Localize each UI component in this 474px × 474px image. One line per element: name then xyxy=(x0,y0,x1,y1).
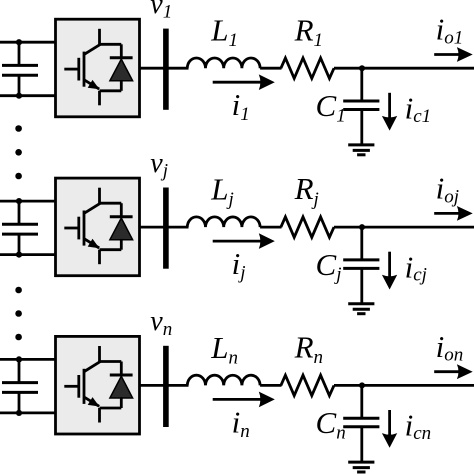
svg-text:i1: i1 xyxy=(232,87,250,125)
wire: module output to inductor (module 1) xyxy=(140,67,189,70)
wire: DC rail top (module n) xyxy=(0,358,57,361)
current arrow i1 xyxy=(213,74,275,90)
junction dot: DC cap bottom (module j) xyxy=(16,252,22,258)
junction node: filter cap tap (module n) xyxy=(359,382,365,388)
diode Dj (freewheeling) xyxy=(110,203,133,250)
svg-text:Rj: Rj xyxy=(294,171,319,210)
capacitor: DC-link cap (module 1) xyxy=(2,42,38,95)
current arrow icn xyxy=(382,410,397,448)
IGBT inverter module box Un xyxy=(56,336,140,434)
svg-text:in: in xyxy=(232,404,250,442)
resistor Rn xyxy=(281,375,334,395)
current arrow ioj xyxy=(434,206,473,221)
wire: DC rail top (module j) xyxy=(0,200,57,203)
junction node: filter cap tap (module j) xyxy=(359,224,365,230)
ellipsis dots (between modules 1 and j) xyxy=(15,125,22,179)
bus bar node vj xyxy=(163,188,169,269)
junction dot: DC cap top (module n) xyxy=(16,356,22,362)
junction dot: DC cap bottom (module 1) xyxy=(16,93,22,99)
wire: DC rail top (module 1) xyxy=(0,41,57,44)
svg-text:Cj: Cj xyxy=(316,247,342,285)
capacitor C1 xyxy=(343,68,379,145)
junction dot: DC cap top (module j) xyxy=(16,198,22,204)
svg-text:v1: v1 xyxy=(150,0,172,23)
IGBT inverter module box U1 xyxy=(56,19,140,117)
svg-text:ion: ion xyxy=(436,329,464,366)
current arrow ij xyxy=(213,233,275,249)
svg-text:Rn: Rn xyxy=(294,330,323,369)
wire: module output to inductor (module n) xyxy=(140,384,189,387)
junction node: filter cap tap (module 1) xyxy=(359,65,365,71)
junction dot: DC cap bottom (module n) xyxy=(16,410,22,416)
inductor Ln xyxy=(187,375,260,385)
capacitor Cj xyxy=(343,227,379,304)
IGBT inverter module box Uj xyxy=(56,178,140,276)
wire: resistor to output edge (module j) xyxy=(334,226,474,229)
svg-text:R1: R1 xyxy=(294,12,323,51)
wire: DC rail bottom (module j) xyxy=(0,253,57,256)
wire: module output to inductor (module j) xyxy=(140,226,189,229)
svg-text:ic1: ic1 xyxy=(405,90,432,126)
transistor Qj (IGBT) xyxy=(64,188,121,265)
ellipsis dots (between modules j and n) xyxy=(15,287,22,341)
capacitor: DC-link cap (module j) xyxy=(2,201,38,255)
transistor Qn (IGBT) xyxy=(64,346,121,423)
diode D1 (freewheeling) xyxy=(110,44,133,91)
ground (module n) xyxy=(348,462,374,472)
wire: inductor to resistor (module 1) xyxy=(260,67,281,70)
resistor Rj xyxy=(281,217,334,237)
svg-text:Ln: Ln xyxy=(210,330,238,368)
resistor R1 xyxy=(281,58,334,78)
svg-text:L1: L1 xyxy=(210,13,238,51)
ground (module 1) xyxy=(348,145,374,155)
svg-text:icj: icj xyxy=(405,249,427,285)
transistor Q1 (IGBT) xyxy=(64,29,121,106)
wire: DC rail bottom (module 1) xyxy=(0,94,57,97)
inductor Lj xyxy=(187,217,260,227)
svg-text:C1: C1 xyxy=(316,88,346,126)
bus bar node vn xyxy=(163,346,169,427)
wire: resistor to output edge (module 1) xyxy=(334,67,474,70)
current arrow io1 xyxy=(434,47,473,62)
svg-text:io1: io1 xyxy=(436,12,464,49)
current arrow ic1 xyxy=(382,93,397,131)
wire: inductor to resistor (module n) xyxy=(260,384,281,387)
bus bar node v1 xyxy=(163,29,169,110)
wire: DC rail bottom (module n) xyxy=(0,412,57,415)
svg-text:icn: icn xyxy=(405,408,432,444)
current arrow in xyxy=(213,392,275,408)
current arrow icj xyxy=(382,252,397,290)
svg-text:ioj: ioj xyxy=(436,171,459,208)
svg-text:Lj: Lj xyxy=(210,172,234,210)
junction dot: DC cap top (module 1) xyxy=(16,39,22,45)
capacitor: DC-link cap (module n) xyxy=(2,359,38,413)
svg-text:vj: vj xyxy=(150,148,168,182)
capacitor Cn xyxy=(343,385,379,462)
svg-text:vn: vn xyxy=(150,306,172,340)
diode Dn (freewheeling) xyxy=(110,362,133,409)
svg-text:Cn: Cn xyxy=(316,405,346,443)
current arrow ion xyxy=(434,364,473,379)
wire: inductor to resistor (module j) xyxy=(260,226,281,229)
wire: resistor to output edge (module n) xyxy=(334,384,474,387)
svg-text:ij: ij xyxy=(232,246,246,284)
ground (module j) xyxy=(348,304,374,314)
inductor L1 xyxy=(187,58,260,68)
